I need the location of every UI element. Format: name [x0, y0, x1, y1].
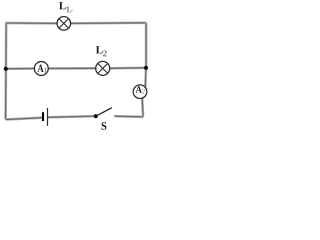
wire top-left horizontal — [6, 22, 58, 25]
wire right vertical upper — [145, 23, 148, 68]
label L2 letter L — [96, 46, 103, 53]
wire bottom-left — [6, 118, 43, 120]
node left junction — [4, 67, 8, 71]
label L2 subscript 2 — [103, 51, 106, 57]
switch S blade — [96, 108, 112, 117]
wire top-right horizontal — [70, 21, 146, 24]
battery positive plate (long thin) — [47, 108, 49, 126]
stray mark above lamp L1 right — [70, 10, 73, 13]
lamp L2 — [96, 61, 110, 75]
ammeter A1 letter A — [37, 65, 43, 72]
battery negative plate (short thick) — [42, 112, 44, 121]
wire left vertical — [4, 23, 7, 120]
lamp L1 — [57, 17, 71, 31]
wire middle right (L2 to right junction) — [110, 66, 146, 69]
wire middle left (junction to A1) — [6, 67, 35, 70]
wire bottom-right stub — [114, 115, 143, 118]
wire right junction to A2 — [144, 68, 147, 88]
ammeter A2 letter A — [136, 86, 142, 92]
wire middle center (A1 to L2) — [48, 67, 95, 70]
label S — [102, 122, 107, 130]
ammeter A1 subscript 1 — [44, 68, 47, 73]
label L1 subscript 1 — [66, 7, 69, 13]
ammeter A2 subscript 2 — [142, 89, 145, 94]
node right junction — [144, 66, 148, 70]
wire A2 to bottom-right corner — [141, 98, 145, 116]
switch S pivot node — [94, 114, 98, 118]
ammeter A1 — [34, 62, 48, 76]
wire battery to switch — [48, 116, 96, 117]
label L1 letter L — [59, 2, 66, 9]
ammeter A2 — [133, 85, 147, 99]
